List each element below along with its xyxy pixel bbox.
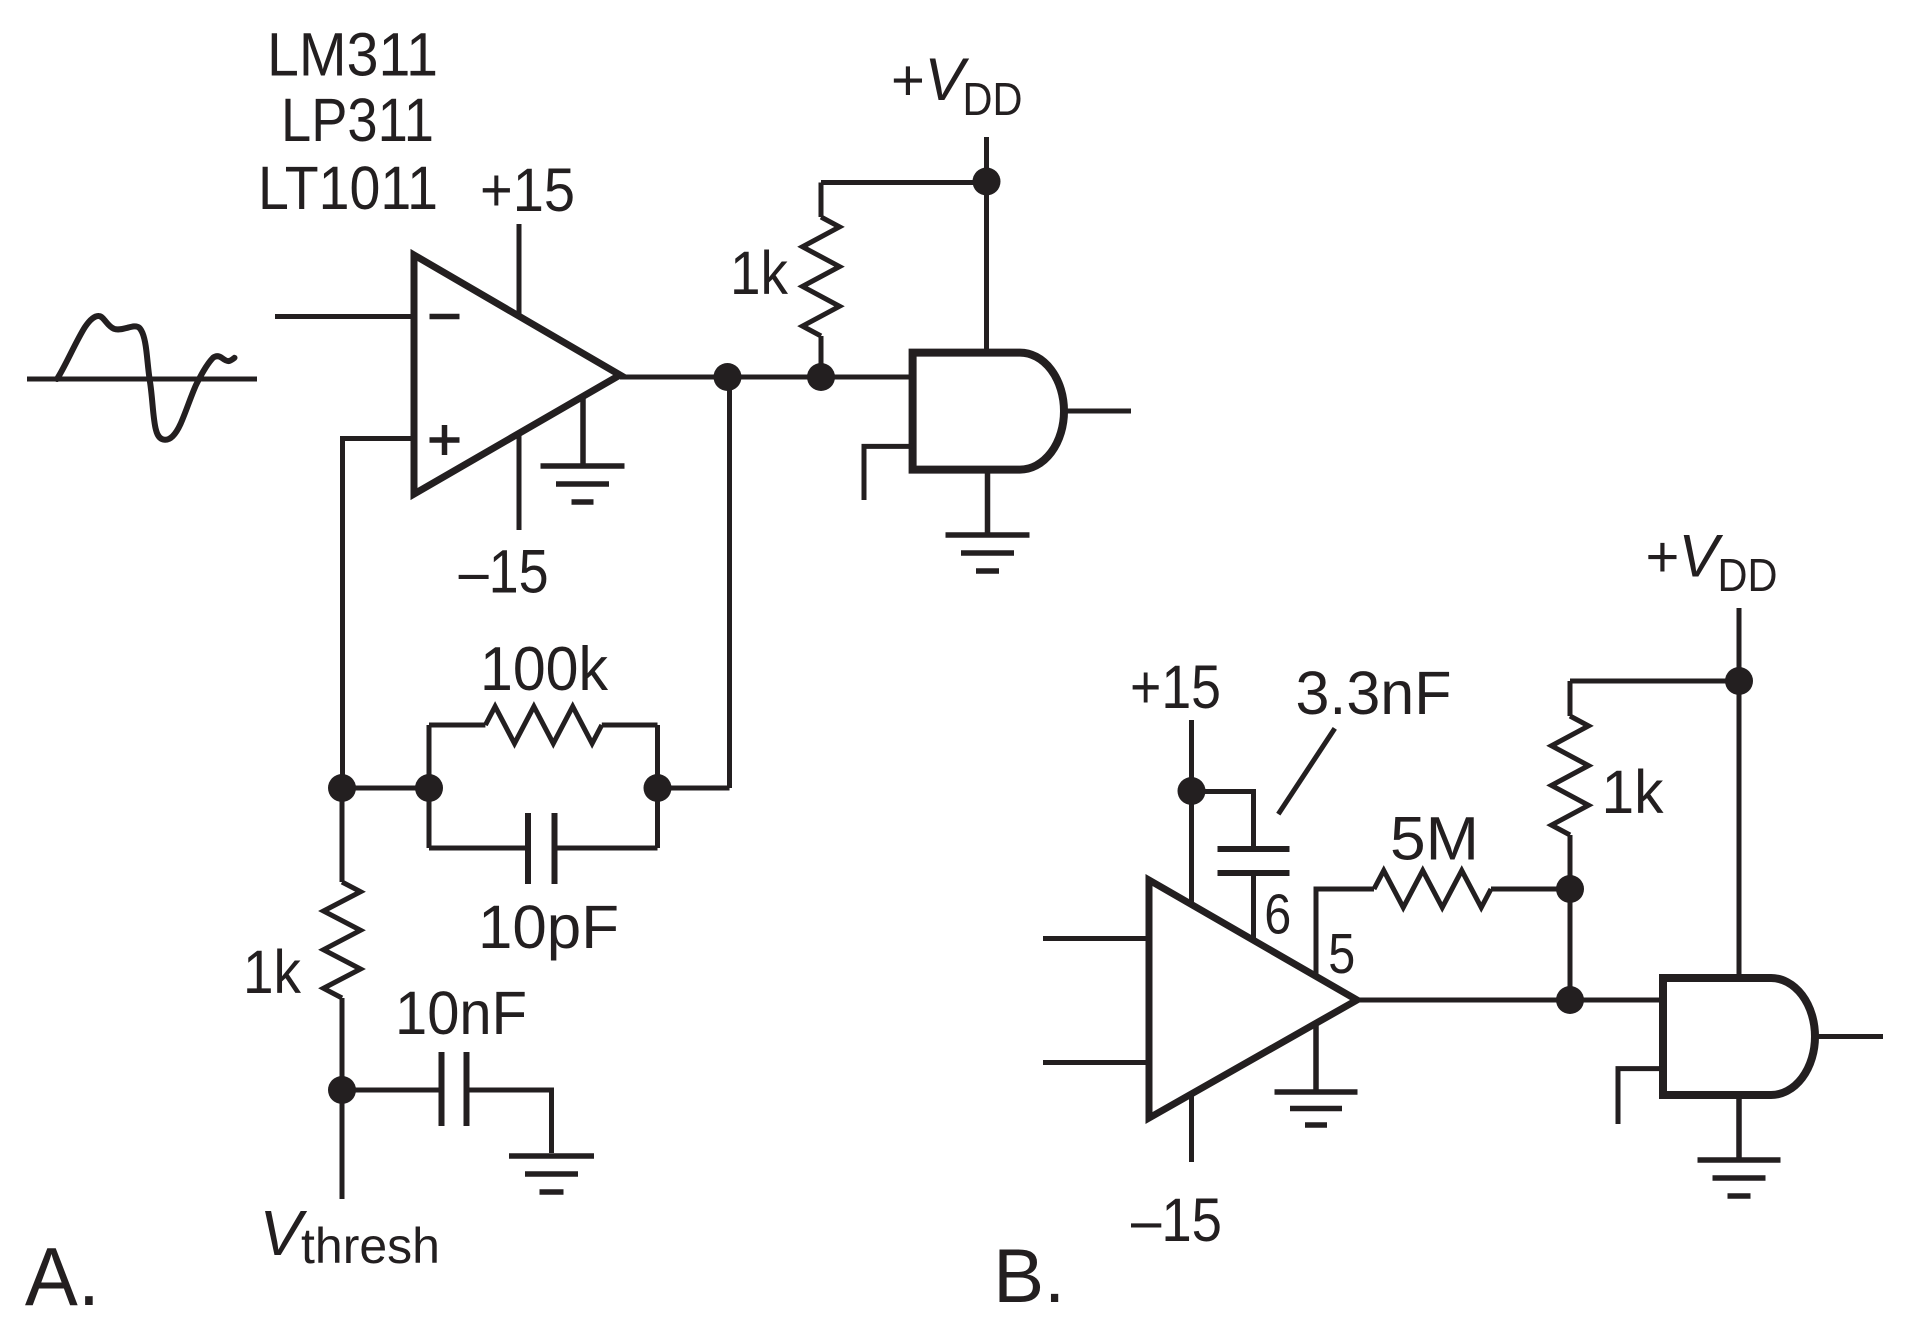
svg-text:+: +: [1646, 525, 1680, 590]
wire: +VDD rail B: [1737, 608, 1742, 978]
resistor 5M: [1374, 871, 1570, 908]
ground: comparator A ground pin: [541, 396, 625, 502]
wire: Vthresh lead: [340, 1090, 345, 1199]
node: output junction B: [1556, 986, 1584, 1014]
ground: AND gate A: [946, 470, 1030, 571]
svg-text:5: 5: [1328, 922, 1355, 986]
svg-text:DD: DD: [963, 73, 1023, 125]
svg-text:10pF: 10pF: [478, 893, 619, 961]
node: +15 bypass junction B: [1178, 777, 1206, 805]
wire: -15 supply pin A: [517, 433, 522, 530]
ground: comparator B ground pin: [1275, 1024, 1358, 1125]
wire: pin 5 to 5M resistor: [1316, 889, 1374, 976]
node: +VDD junction B: [1725, 667, 1753, 695]
label: +VDD B: [1646, 523, 1778, 602]
svg-text:A.: A.: [25, 1230, 100, 1323]
resistor 1k pull-up B: [1552, 681, 1740, 889]
capacitor 10pF: [429, 813, 658, 884]
svg-text:3.3nF: 3.3nF: [1296, 659, 1452, 727]
label: 3.3nF with callout: [1278, 659, 1451, 814]
svg-text:6: 6: [1264, 882, 1291, 946]
wire: comparator A output: [620, 375, 913, 380]
comparator U2: [1149, 880, 1357, 1118]
node: +VDD junction A: [973, 168, 1001, 196]
svg-text:+15: +15: [480, 156, 575, 224]
node: parallel network left junction: [415, 774, 443, 802]
wire: parallel network left branch: [427, 725, 432, 848]
svg-text:–15: –15: [459, 538, 549, 606]
svg-text:DD: DD: [1718, 549, 1778, 601]
node: output junction to feedback: [714, 363, 742, 391]
capacitor 3.3nF: [1192, 792, 1290, 941]
wire: +15 supply pin B: [1189, 720, 1194, 905]
svg-text:LM311: LM311: [267, 21, 438, 89]
node: feedback node at divider right: [644, 774, 672, 802]
svg-text:5M: 5M: [1390, 804, 1479, 872]
wire: inverting input of comparator A: [275, 314, 414, 319]
resistor 100k feedback: [429, 707, 658, 744]
AND gate B: [1618, 978, 1883, 1124]
svg-text:–15: –15: [1131, 1186, 1222, 1254]
comparator U1 (LM311/LP311/LT1011): [414, 255, 620, 494]
node: output junction to pull-up: [807, 363, 835, 391]
wire: comparator B input stubs: [1043, 939, 1149, 1063]
input waveform sketch: [27, 316, 257, 440]
svg-text:thresh: thresh: [301, 1218, 440, 1274]
svg-text:10nF: 10nF: [395, 979, 527, 1047]
svg-text:1k: 1k: [730, 239, 788, 307]
label: +VDD A: [891, 46, 1023, 125]
wire: comparator B output: [1357, 998, 1663, 1003]
wire: +15 supply pin A: [517, 224, 522, 316]
wire: +VDD rail A: [984, 137, 989, 353]
svg-text:LT1011: LT1011: [258, 154, 438, 222]
node: divider left junction: [328, 774, 356, 802]
svg-text:1k: 1k: [243, 938, 301, 1006]
AND gate A: [864, 353, 1131, 500]
wire: non-inverting input of comparator A: [343, 439, 415, 789]
ground: AND gate B: [1698, 1095, 1781, 1196]
label: LM311 LP311 LT1011: [258, 21, 438, 222]
svg-text:+: +: [891, 48, 925, 113]
svg-text:1k: 1k: [1602, 758, 1664, 826]
ground: 10nF bypass ground: [509, 1156, 594, 1192]
svg-text:LP311: LP311: [281, 86, 434, 154]
resistor 1k pull-up A: [803, 183, 987, 378]
svg-text:100k: 100k: [480, 635, 609, 704]
wire: feedback from output to divider: [658, 377, 730, 788]
svg-text:+15: +15: [1130, 653, 1221, 721]
wire: -15 supply pin B: [1189, 1094, 1194, 1162]
wire: junction to output B: [1568, 889, 1573, 1000]
svg-text:B.: B.: [993, 1234, 1065, 1319]
resistor 1k divider A: [324, 788, 361, 1090]
label: Vthresh: [260, 1197, 441, 1274]
wire: link between divider junctions: [342, 786, 429, 791]
node: 5M/1k junction: [1556, 875, 1584, 903]
wire: parallel network right branch: [655, 725, 660, 848]
capacitor 10nF: [342, 1052, 552, 1153]
node: Vthresh junction: [328, 1076, 356, 1104]
